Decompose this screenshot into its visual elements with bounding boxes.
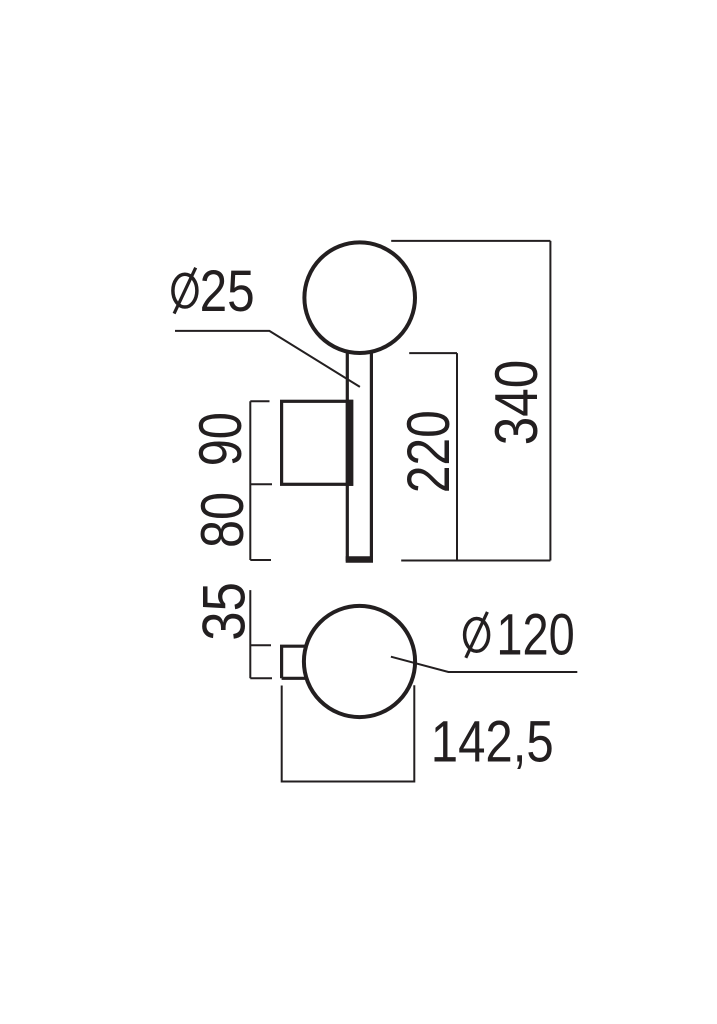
svg-text:120: 120 [496, 603, 574, 668]
svg-text:340: 340 [483, 360, 550, 445]
svg-text:220: 220 [395, 410, 462, 493]
svg-text:90: 90 [187, 412, 254, 466]
svg-text:25: 25 [200, 259, 255, 324]
svg-text:80: 80 [189, 492, 256, 548]
svg-text:142,5: 142,5 [431, 709, 554, 774]
svg-text:35: 35 [190, 582, 257, 641]
